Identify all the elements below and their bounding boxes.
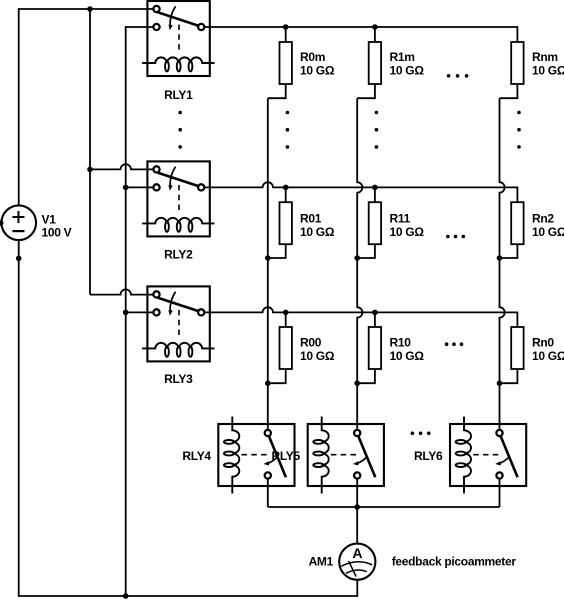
wire RLY4 output drop xyxy=(267,479,269,507)
svg-text:AM1: AM1 xyxy=(309,555,334,569)
wire column 1 vertical with hops over row buses xyxy=(357,98,362,430)
voltage source V1 xyxy=(1,205,36,240)
svg-text:RLY4: RLY4 xyxy=(182,449,211,463)
wire bus A to RLY2 NC with hop over bus B xyxy=(90,164,153,169)
node ellipsis below RLY1 xyxy=(178,111,182,149)
wire middle row bus from RLY2 pole with hop over column 0 xyxy=(205,182,518,202)
wire bus B to RLY3 NO xyxy=(126,311,154,313)
svg-text:RLY2: RLY2 xyxy=(164,248,193,262)
svg-text:A: A xyxy=(352,545,362,561)
node junction below V1 xyxy=(16,256,22,262)
wire column 0 vertical xyxy=(267,98,269,430)
node ellipsis middle row xyxy=(446,235,465,239)
svg-text:R00: R00 xyxy=(300,336,322,350)
wire top row bus from RLY1 pole to Rnm xyxy=(205,27,518,42)
svg-text:100 V: 100 V xyxy=(42,226,72,240)
node ellipsis column 1 xyxy=(375,111,379,149)
svg-text:R11: R11 xyxy=(390,212,411,226)
svg-text:10 GΩ: 10 GΩ xyxy=(300,225,335,239)
wire bus B to RLY2 NO xyxy=(126,186,154,188)
relay RLY1 xyxy=(142,1,214,76)
node junction bus A / RLY2 NC wire xyxy=(87,167,93,173)
node ellipsis column n xyxy=(517,111,521,149)
wire top bus V1+ to RLY1 NC xyxy=(19,9,154,205)
wire bus A vertical xyxy=(89,9,91,295)
resistor R10 xyxy=(374,312,376,327)
node ellipsis top row xyxy=(447,74,469,78)
wire RLY6 output drop xyxy=(499,479,501,507)
relay RLY6 xyxy=(450,417,526,494)
relay RLY5 xyxy=(308,417,384,494)
node terminal dot left edge of V1 xyxy=(0,220,4,226)
resistor R1m xyxy=(374,27,376,42)
svg-text:Rn2: Rn2 xyxy=(532,212,554,226)
wire V1 minus down / bottom rail / ammeter bottom xyxy=(19,240,358,596)
svg-text:10 GΩ: 10 GΩ xyxy=(532,64,564,78)
svg-text:R0m: R0m xyxy=(300,50,325,64)
node junction bus A on top bus xyxy=(87,6,93,12)
resistor R00 xyxy=(285,312,287,327)
resistor R11 xyxy=(374,187,376,202)
node junction bus B / RLY2 NO xyxy=(123,185,129,191)
wire RLY5 output drop xyxy=(356,479,358,507)
svg-text:R1m: R1m xyxy=(390,50,415,64)
node junction output bus / ammeter xyxy=(354,504,360,510)
svg-text:10 GΩ: 10 GΩ xyxy=(300,64,335,78)
resistor Rn0 xyxy=(511,327,523,369)
svg-text:10 GΩ: 10 GΩ xyxy=(532,349,564,363)
svg-text:RLY6: RLY6 xyxy=(414,449,443,463)
resistor Rnm xyxy=(511,42,523,84)
wire RLY1 NO to bus B vertical xyxy=(126,27,154,596)
relay RLY4 xyxy=(218,417,294,494)
node ellipsis relay row xyxy=(411,432,431,436)
svg-text:V1: V1 xyxy=(42,213,57,227)
wire ammeter top xyxy=(356,507,358,544)
svg-text:RLY3: RLY3 xyxy=(164,372,193,386)
svg-text:RLY1: RLY1 xyxy=(164,88,193,102)
svg-text:10 GΩ: 10 GΩ xyxy=(300,349,335,363)
svg-text:10 GΩ: 10 GΩ xyxy=(390,225,425,239)
relay RLY3 xyxy=(142,286,214,361)
relay RLY2 xyxy=(142,161,214,236)
resistor R01 xyxy=(285,187,287,202)
svg-text:RLY5: RLY5 xyxy=(272,449,301,463)
svg-text:Rnm: Rnm xyxy=(532,50,558,64)
node ellipsis column 0 xyxy=(286,111,290,149)
resistor R0m xyxy=(285,27,287,42)
svg-text:Rn0: Rn0 xyxy=(532,336,554,350)
wire column n vertical with hops over row buses xyxy=(500,98,505,430)
wire bottom row bus from RLY3 pole with hop over column 0 xyxy=(205,307,518,327)
svg-text:R01: R01 xyxy=(300,212,322,226)
svg-text:R10: R10 xyxy=(390,336,412,350)
svg-text:10 GΩ: 10 GΩ xyxy=(390,349,425,363)
wire bus A end to RLY3 NC with hop over bus B xyxy=(90,289,153,294)
svg-text:10 GΩ: 10 GΩ xyxy=(390,64,425,78)
svg-text:feedback picoammeter: feedback picoammeter xyxy=(392,555,517,569)
node junction bus B / bottom rail xyxy=(123,593,129,599)
resistor Rn2 xyxy=(511,202,523,244)
node junction bus B / RLY3 NO xyxy=(123,310,129,316)
wire output bus to ammeter xyxy=(268,506,500,508)
ammeter AM1 xyxy=(339,544,375,580)
node ellipsis bottom row xyxy=(445,342,464,346)
svg-text:10 GΩ: 10 GΩ xyxy=(532,225,564,239)
